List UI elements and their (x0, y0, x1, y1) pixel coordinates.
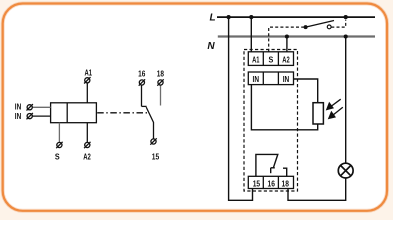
svg-text:15: 15 (152, 151, 160, 161)
svg-text:S: S (55, 152, 60, 162)
svg-text:N: N (207, 41, 215, 52)
svg-text:A2: A2 (282, 54, 290, 64)
svg-text:IN: IN (253, 74, 260, 84)
svg-text:IN: IN (15, 111, 21, 121)
svg-text:A2: A2 (83, 152, 91, 162)
svg-text:16: 16 (268, 178, 276, 188)
svg-text:A1: A1 (252, 54, 260, 64)
svg-text:15: 15 (253, 178, 261, 188)
svg-text:18: 18 (157, 69, 164, 79)
svg-text:IN: IN (283, 74, 290, 84)
svg-text:A1: A1 (85, 67, 93, 77)
svg-text:S: S (269, 54, 274, 64)
svg-text:16: 16 (138, 69, 145, 79)
svg-text:IN: IN (15, 101, 21, 111)
svg-text:18: 18 (282, 178, 290, 188)
svg-text:L: L (209, 13, 215, 24)
